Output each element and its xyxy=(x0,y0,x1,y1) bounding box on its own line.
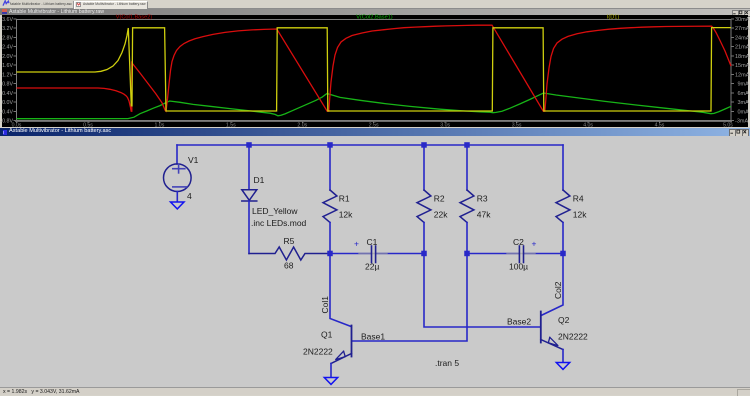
svg-text:R5: R5 xyxy=(284,236,295,246)
svg-text:4.0s: 4.0s xyxy=(583,122,593,128)
svg-text:0mA: 0mA xyxy=(738,109,750,115)
svg-text:3.0s: 3.0s xyxy=(440,122,450,128)
svg-text:2N2222: 2N2222 xyxy=(558,332,588,342)
node junction top rail at R3 xyxy=(464,142,470,148)
svg-text:+: + xyxy=(354,239,359,249)
resistor R1 xyxy=(323,145,353,254)
svg-text:R2: R2 xyxy=(434,194,445,204)
wire node Base2 xyxy=(424,254,541,328)
resistor R5 xyxy=(249,236,327,271)
status bar xyxy=(0,387,750,396)
svg-text:V1: V1 xyxy=(188,155,199,165)
resistor R2 xyxy=(417,145,448,254)
svg-text:15mA: 15mA xyxy=(735,63,750,69)
svg-text:24mA: 24mA xyxy=(735,36,750,42)
svg-text:R4: R4 xyxy=(573,194,584,204)
svg-text:22µ: 22µ xyxy=(365,262,379,272)
transistor Q1 xyxy=(303,326,352,378)
svg-text:V(Col1,Base2): V(Col1,Base2) xyxy=(116,14,153,20)
svg-text:1.6V: 1.6V xyxy=(2,63,13,69)
node junction mid rail at Col1 xyxy=(327,251,333,257)
tab 2 icon xyxy=(76,2,81,8)
svg-text:0.4V: 0.4V xyxy=(2,91,13,97)
capacitor C1 xyxy=(330,237,424,272)
svg-text:+: + xyxy=(532,239,537,249)
node junction mid rail at R3 xyxy=(464,251,470,257)
schematic title buttons xyxy=(729,129,737,137)
left ticks xyxy=(14,19,17,121)
diode D1 LED xyxy=(242,145,307,254)
resistor R3 xyxy=(460,145,491,254)
ground under V1 xyxy=(171,202,185,209)
svg-text:47k: 47k xyxy=(477,210,491,220)
svg-text:9mA: 9mA xyxy=(738,82,750,88)
svg-text:-0.4V: -0.4V xyxy=(0,109,13,115)
plot window title bar (inactive) xyxy=(0,9,750,16)
svg-text:C2: C2 xyxy=(513,237,524,247)
svg-text:3.5s: 3.5s xyxy=(512,122,522,128)
svg-text:Base2: Base2 xyxy=(507,317,531,327)
capacitor C2 xyxy=(467,237,563,272)
svg-text:100µ: 100µ xyxy=(509,262,528,272)
svg-text:C1: C1 xyxy=(367,237,378,247)
tab 2 label xyxy=(83,2,146,8)
svg-text:22k: 22k xyxy=(434,210,448,220)
voltage source V1 xyxy=(164,145,199,202)
tab bar xyxy=(0,0,750,9)
svg-text:6mA: 6mA xyxy=(738,91,750,97)
svg-text:V(Col2,Base1): V(Col2,Base1) xyxy=(356,14,393,20)
svg-text:I(D1): I(D1) xyxy=(607,14,620,20)
svg-text:2.0V: 2.0V xyxy=(2,54,13,60)
node junction mid rail at Col2 xyxy=(560,251,566,257)
resistor R4 xyxy=(556,145,587,254)
svg-text:4.5s: 4.5s xyxy=(655,122,665,128)
traces xyxy=(17,25,732,119)
tab 2 (selected) xyxy=(74,1,148,9)
bottom ticks xyxy=(17,121,732,124)
svg-text:R1: R1 xyxy=(339,194,350,204)
svg-text:12k: 12k xyxy=(339,210,353,220)
schematic client (gray) xyxy=(0,136,750,387)
red trace V(Col1,Base2) xyxy=(17,25,732,111)
svg-text:1.5s: 1.5s xyxy=(226,122,236,128)
svg-text:3.6V: 3.6V xyxy=(2,17,13,23)
svg-text:R3: R3 xyxy=(477,194,488,204)
yellow trace I(D1) xyxy=(17,28,732,111)
svg-text:0.0s: 0.0s xyxy=(12,122,22,128)
svg-text:Col1: Col1 xyxy=(320,296,330,314)
axis labels xyxy=(0,17,13,125)
tab divider 1 xyxy=(73,1,74,9)
svg-text:D1: D1 xyxy=(254,175,265,185)
node junction top rail at R1 xyxy=(327,142,333,148)
ground under Q1 xyxy=(324,378,337,385)
svg-text:.tran 5: .tran 5 xyxy=(435,358,459,368)
svg-text:18mA: 18mA xyxy=(735,54,750,60)
svg-text:3.2V: 3.2V xyxy=(2,26,13,32)
svg-text:.inc LEDs.mod: .inc LEDs.mod xyxy=(251,218,307,228)
svg-text:3mA: 3mA xyxy=(738,100,750,106)
svg-text:2.4V: 2.4V xyxy=(2,45,13,51)
node junction top rail at R2 xyxy=(421,142,427,148)
svg-text:-3mA: -3mA xyxy=(735,119,748,125)
svg-text:Q1: Q1 xyxy=(321,330,333,340)
svg-text:LED_Yellow: LED_Yellow xyxy=(252,206,298,216)
svg-text:Base1: Base1 xyxy=(361,332,385,342)
svg-text:12k: 12k xyxy=(573,210,587,220)
svg-text:Q2: Q2 xyxy=(558,315,570,325)
plot box frame xyxy=(17,20,732,121)
svg-text:21mA: 21mA xyxy=(735,45,750,51)
svg-text:5.0s: 5.0s xyxy=(723,122,733,128)
svg-text:68: 68 xyxy=(284,261,294,271)
transistor Q2 xyxy=(541,312,588,363)
svg-text:2.0s: 2.0s xyxy=(297,122,307,128)
wire node Col2 xyxy=(541,254,563,316)
svg-text:12mA: 12mA xyxy=(735,72,750,78)
svg-text:4: 4 xyxy=(187,191,192,201)
wire node Base1 xyxy=(352,254,467,342)
svg-text:1.2V: 1.2V xyxy=(2,72,13,78)
schematic window title bar (active) xyxy=(0,127,750,129)
svg-text:0.8V: 0.8V xyxy=(2,82,13,88)
svg-text:0.5s: 0.5s xyxy=(83,122,93,128)
wire top supply rail xyxy=(177,144,563,146)
svg-text:2N2222: 2N2222 xyxy=(303,347,333,357)
plot title buttons xyxy=(732,10,739,17)
right ticks xyxy=(731,19,734,121)
svg-text:1.0s: 1.0s xyxy=(154,122,164,128)
svg-text:2.5s: 2.5s xyxy=(369,122,379,128)
tab 1 label xyxy=(10,2,72,8)
node junction top rail at D1 xyxy=(246,142,252,148)
trace name labels xyxy=(116,14,620,20)
svg-text:27mA: 27mA xyxy=(735,26,750,32)
svg-text:0.0V: 0.0V xyxy=(2,100,13,106)
svg-text:Col2: Col2 xyxy=(553,281,563,299)
green trace V(Col2,Base1) xyxy=(17,93,732,119)
wire node Col1 xyxy=(320,254,351,327)
ground under Q2 xyxy=(556,363,569,370)
plot client (black) xyxy=(2,15,748,127)
svg-text:30mA: 30mA xyxy=(735,17,750,23)
svg-text:2.8V: 2.8V xyxy=(2,36,13,42)
node junction mid rail at R2 xyxy=(421,251,427,257)
